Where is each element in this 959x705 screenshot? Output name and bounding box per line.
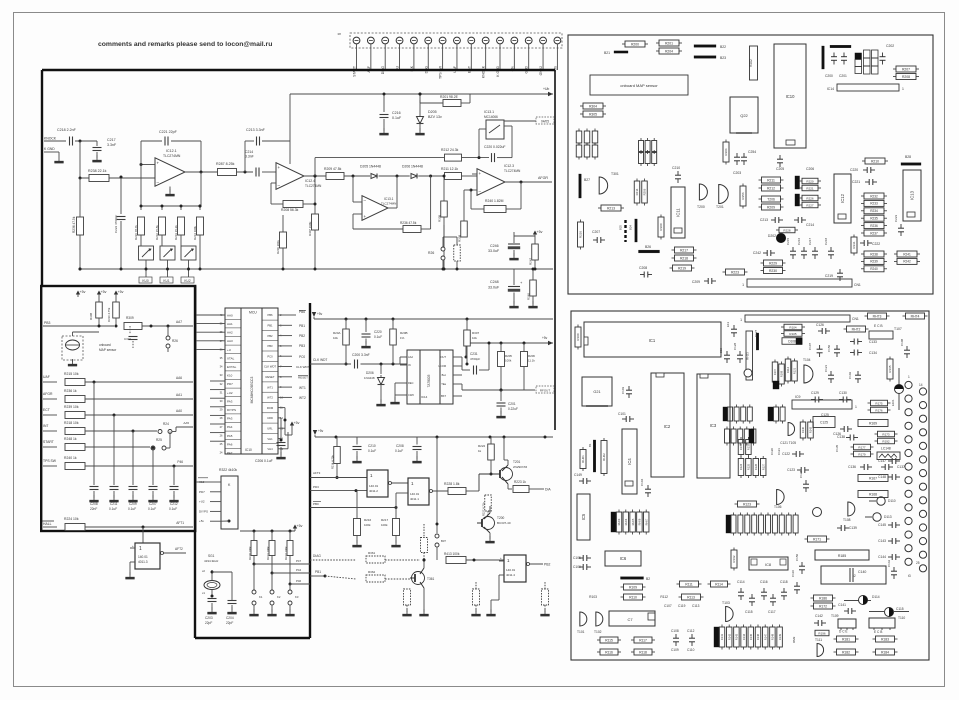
IC6 (PCB): [605, 551, 641, 566]
+5v arrow mid: [534, 232, 536, 237]
IC13 (PCB): [903, 170, 921, 221]
svg-text:CN1: CN1: [852, 317, 859, 321]
svg-text:WT1: WT1: [267, 385, 273, 389]
svg-text:R208: R208: [902, 75, 910, 79]
svg-text:URL: URL: [267, 427, 273, 431]
resistor RH23 tall (PCB): [746, 331, 753, 380]
resistor R183 (PCB): [876, 636, 895, 642]
diode D206 1N4448: [411, 174, 417, 179]
svg-text:T201: T201: [513, 460, 520, 464]
transistor T201 2N2907A: [500, 468, 513, 481]
svg-text:t3: t3: [908, 574, 911, 578]
svg-text:0.1uF: 0.1uF: [148, 507, 156, 511]
preset switch KU0: [139, 246, 154, 260]
svg-text:INT: INT: [43, 424, 48, 428]
svg-text:T200: T200: [697, 205, 705, 209]
ground C208b: [416, 456, 418, 461]
resistor R109 (PCB): [624, 584, 643, 590]
svg-text:R141: R141: [720, 633, 724, 640]
resistor R236 (PCB): [864, 223, 884, 229]
svg-text:1: 1: [902, 87, 904, 91]
wire opamp3 output up: [388, 207, 397, 209]
svg-text:RH73: RH73: [873, 314, 882, 318]
resistor RH73 (PCB): [868, 313, 887, 319]
svg-text:C208: C208: [396, 444, 404, 448]
svg-text:C203: C203: [205, 616, 213, 620]
resistor R234 100k vertical: [197, 217, 204, 235]
svg-text:R248 1k: R248 1k: [64, 437, 77, 441]
svg-text:AFT3: AFT3: [313, 471, 321, 475]
jumper K3: [289, 584, 291, 590]
resistor R212 24.3k: [445, 154, 462, 161]
transistor T301 (PCB): [599, 177, 608, 194]
resistor RH01 vertical (PCB): [580, 450, 586, 469]
svg-text:RH72: RH72: [852, 327, 861, 331]
svg-text:T111: T111: [815, 638, 822, 642]
connector CN0 dashed outline: [350, 33, 562, 48]
microcontroller box border: [194, 286, 196, 638]
dotted resistor R203 vertical: [421, 538, 428, 553]
svg-text:R124: R124: [739, 463, 743, 470]
resistor R237 (PCB): [864, 230, 884, 236]
svg-text:R216: R216: [364, 518, 372, 522]
svg-text:R24: R24: [163, 422, 169, 426]
svg-text:+5v: +5v: [294, 421, 300, 425]
hole E101: [898, 368, 900, 410]
svg-text:D113: D113: [884, 515, 892, 519]
jumper K1: [253, 564, 255, 590]
dot junction: [79, 140, 82, 143]
wires presets: [140, 234, 142, 236]
IC9b label hole: [744, 369, 752, 377]
svg-text:R113: R113: [687, 595, 695, 599]
connector pin +U: [396, 37, 403, 44]
feedback wires opamp2: [271, 182, 276, 184]
svg-text:R240 1k: R240 1k: [64, 456, 77, 460]
svg-text:R217: R217: [381, 518, 389, 522]
svg-text:C136: C136: [848, 465, 856, 469]
svg-text:4011.4: 4011.4: [506, 573, 515, 577]
svg-text:C209: C209: [692, 280, 700, 284]
resistor R208 56.3k feedback: [283, 201, 303, 208]
svg-text:C130: C130: [839, 391, 847, 395]
svg-text:C101: C101: [618, 412, 626, 416]
svg-text:R231: R231: [852, 241, 856, 249]
T109 package (PCB): [838, 619, 856, 628]
svg-text:PA3: PA3: [227, 417, 233, 421]
svg-text:RC31 100k: RC31 100k: [266, 546, 270, 560]
resistor R172b (PCB): [814, 603, 833, 609]
svg-text:4011.2: 4011.2: [369, 489, 378, 493]
resistor R223 1k: [507, 484, 509, 489]
svg-text:+: +: [364, 214, 367, 219]
svg-text:REC: REC: [408, 381, 414, 385]
svg-text:22pF: 22pF: [226, 621, 233, 625]
svg-text:C139: C139: [849, 526, 857, 530]
svg-text:C107: C107: [664, 604, 672, 608]
svg-text:C218 2.2nF: C218 2.2nF: [57, 128, 77, 132]
ground C246: [513, 253, 515, 258]
svg-text:AA2: AA2: [227, 331, 233, 335]
svg-text:RC32 100k: RC32 100k: [284, 546, 288, 560]
diode D114 (PCB): [859, 596, 868, 605]
svg-text:D110: D110: [888, 499, 896, 503]
wire opamp4 minus rail: [464, 189, 471, 191]
IC8 (PCB): [749, 557, 788, 570]
PCB panel 1 border: [568, 35, 933, 294]
svg-text:C220 0.022uF: C220 0.022uF: [484, 145, 506, 149]
D10B boxed (PCB): [782, 338, 802, 345]
svg-text:R110: R110: [629, 595, 637, 599]
dashed net label 04/05: [536, 117, 554, 124]
ground R248: [532, 301, 534, 306]
svg-text:B1: B1: [588, 443, 592, 447]
svg-text:PB3: PB3: [44, 321, 51, 325]
svg-text:R123: R123: [743, 502, 751, 506]
svg-text:D202: D202: [768, 234, 776, 238]
svg-text:RH04: RH04: [624, 518, 628, 525]
svg-text:Q22: Q22: [740, 113, 748, 118]
svg-text:+5v: +5v: [542, 336, 548, 340]
svg-text:DIAG: DIAG: [313, 554, 321, 558]
svg-text:BST: BST: [441, 394, 446, 398]
resistor R217 (PCB): [675, 247, 694, 253]
input conditioning box border: [41, 286, 195, 531]
svg-text:AA0: AA0: [176, 409, 182, 413]
svg-text:R236 1k: R236 1k: [64, 389, 77, 393]
svg-text:C143: C143: [878, 539, 886, 543]
svg-text:T103: T103: [722, 601, 730, 605]
ground K GND: [58, 156, 60, 161]
capacitor C212 0.1uF: [173, 466, 175, 485]
svg-text:R105: R105: [789, 332, 797, 336]
capacitor C211 0.1uF: [113, 415, 115, 485]
resistor R210 (PCB): [865, 158, 885, 164]
svg-text:C141: C141: [838, 603, 846, 607]
svg-text:R212 24.3k: R212 24.3k: [441, 148, 459, 152]
svg-text:+U: +U: [227, 348, 231, 352]
microcontroller IC10 body: [225, 308, 241, 454]
resistor R207 (PCB): [896, 66, 916, 72]
svg-text:+: +: [479, 171, 482, 176]
svg-text:C202: C202: [886, 44, 894, 48]
dot INT chain: [132, 430, 135, 433]
resistor R192 (PCB): [878, 438, 895, 444]
resistor R162 vertical (PCB): [731, 550, 737, 568]
resistor R206 11.1k vertical: [521, 352, 528, 367]
capacitor C217 3.3nF: [96, 141, 98, 146]
svg-text:R125: R125: [747, 463, 751, 470]
resistor R20A 10k vertical: [343, 329, 350, 345]
svg-text:R118: R118: [639, 650, 647, 654]
svg-text:R214 4.75k: R214 4.75k: [331, 455, 335, 469]
ground R366: [406, 609, 408, 614]
svg-text:0.1uF: 0.1uF: [395, 449, 403, 453]
svg-text:RH03: RH03: [617, 518, 621, 525]
svg-text:CN1: CN1: [854, 283, 861, 287]
svg-text:R116: R116: [605, 650, 613, 654]
svg-text:RESET: RESET: [266, 375, 275, 379]
connector pin ISK: [411, 37, 418, 44]
+5v arrow rail left end: [312, 312, 316, 317]
svg-text:T102: T102: [594, 630, 602, 634]
svg-text:R213: R213: [607, 206, 615, 210]
svg-text:RH01: RH01: [581, 455, 585, 463]
ground T361 emitter: [423, 588, 425, 612]
svg-text:PD7: PD7: [199, 490, 205, 494]
svg-text:C212: C212: [170, 502, 178, 506]
op-amp IC12.1 TLC274MN: [155, 158, 185, 187]
svg-text:T108: T108: [843, 518, 851, 522]
svg-text:CLK WDT: CLK WDT: [313, 358, 327, 362]
svg-text:R103: R103: [589, 595, 597, 599]
svg-text:cn: cn: [338, 32, 342, 36]
resistor R227 4.71k vertical: [485, 495, 492, 511]
resistor R310b 4.75k vertical: [113, 302, 120, 318]
TA78005 left pin wires: [399, 357, 401, 364]
resistor R201 (PCB): [659, 40, 679, 46]
svg-text:C218: C218: [824, 237, 828, 245]
svg-text:R210: R210: [871, 159, 879, 163]
resistor R217 100k vertical: [393, 519, 400, 536]
svg-text:R177: R177: [858, 445, 866, 449]
capacitor C210b 0.1uF: [356, 437, 358, 445]
resistor R117 (PCB): [634, 637, 652, 643]
svg-text:C209: C209: [129, 502, 137, 506]
resistor R232 (PCB): [864, 193, 884, 199]
svg-text:C125: C125: [821, 413, 829, 417]
svg-text:R217: R217: [680, 248, 688, 252]
resistor R179 (PCB): [854, 451, 871, 457]
resistor R196 (PCB): [815, 630, 829, 636]
resistor R236b 1k: [65, 396, 85, 403]
ground C210b: [356, 456, 358, 461]
svg-text:R114: R114: [715, 582, 723, 586]
jumper bar B21: [614, 51, 628, 53]
svg-text:C221: C221: [852, 180, 860, 184]
svg-text:onboard: onboard: [99, 343, 111, 347]
onboard MAP sensor box: [590, 75, 688, 95]
svg-text:G21: G21: [593, 390, 600, 394]
svg-text:B22: B22: [720, 45, 726, 49]
svg-text:C140: C140: [858, 570, 866, 574]
resistor R186 (PCB): [814, 595, 833, 601]
resistor R235 (PCB): [864, 215, 884, 221]
svg-text:B28: B28: [905, 155, 911, 159]
diode D113 (PCB): [873, 513, 881, 521]
svg-text:C115: C115: [745, 610, 753, 614]
svg-text:R117: R117: [639, 638, 647, 642]
svg-text:PB3: PB3: [299, 344, 305, 348]
resistor R240 1.82M feedback: [484, 206, 506, 213]
wire to C213 junction: [237, 171, 254, 173]
svg-text:WT2: WT2: [299, 396, 306, 400]
svg-text:C210: C210: [672, 166, 680, 170]
C125 (PCB): [813, 417, 835, 428]
svg-text:100k: 100k: [505, 359, 512, 363]
svg-text:R239: R239: [870, 260, 878, 264]
wire opamp1 output: [185, 171, 218, 173]
svg-text:+5v: +5v: [118, 290, 124, 294]
svg-text:R248: R248: [527, 293, 531, 300]
resistor R240 (PCB): [864, 266, 884, 272]
ground C212: [173, 495, 175, 500]
svg-text:SG1: SG1: [208, 554, 215, 558]
svg-text:P47: P47: [296, 559, 302, 563]
+5v arrow input box 3: [115, 292, 117, 297]
svg-text:IC2: IC2: [664, 424, 671, 429]
ground C216: [383, 128, 385, 133]
resistor R230 (PCB): [764, 268, 783, 274]
svg-text:R287 8.25k: R287 8.25k: [216, 162, 235, 166]
op-amp IC12.3 TLC274MN: [477, 169, 505, 196]
resistor R219 (PCB): [673, 265, 692, 271]
svg-text:R234: R234: [870, 209, 878, 213]
svg-text:R127: R127: [761, 463, 765, 470]
svg-text:PA7: PA7: [227, 451, 233, 455]
svg-text:VH1: VH1: [267, 437, 273, 441]
resistor network R322 4k10k: [221, 476, 238, 529]
svg-text:C254: C254: [748, 150, 756, 154]
svg-text:R234 100k: R234 100k: [193, 225, 197, 240]
svg-text:C114: C114: [737, 580, 745, 584]
svg-text:0.1uF: 0.1uF: [368, 449, 376, 453]
transistor T361: [412, 572, 425, 585]
svg-text:R182: R182: [842, 650, 850, 654]
svg-text:+U2: +U2: [199, 500, 205, 504]
capacitor C214 3.3nF series: [255, 168, 257, 177]
svg-text:4194.3kHz: 4194.3kHz: [204, 559, 219, 563]
svg-text:PB2: PB2: [299, 334, 305, 338]
resistor R234 (PCB): [864, 208, 884, 214]
svg-text:R413 100k: R413 100k: [444, 552, 460, 556]
svg-text:100k: 100k: [364, 523, 371, 527]
svg-text:C124: C124: [799, 470, 803, 478]
svg-text:C137: C137: [897, 465, 905, 469]
svg-text:0.22uF: 0.22uF: [508, 407, 518, 411]
capacitor C200 (PCB): [833, 53, 835, 57]
resistor R165 vertical (PCB): [887, 359, 893, 379]
hole near T108: [813, 508, 822, 517]
svg-text:MC14066: MC14066: [484, 115, 498, 119]
svg-text:PD3: PD3: [313, 485, 319, 489]
capacitor C134 (PCB): [850, 352, 854, 354]
IC5 (PCB): [577, 494, 590, 540]
svg-text:R169: R169: [869, 421, 877, 425]
capacitor C201 0.22uF: [500, 390, 502, 401]
svg-text:1: 1: [908, 375, 910, 379]
resistor R176 (PCB): [871, 407, 888, 413]
svg-text:C214: C214: [245, 150, 253, 154]
svg-text:RH02: RH02: [602, 453, 606, 461]
svg-text:R222: R222: [478, 444, 486, 448]
svg-text:R226 78.7k: R226 78.7k: [134, 225, 138, 240]
capacitor C222 4700pF vertical: [120, 177, 122, 214]
resistor R212 (PCB): [762, 185, 781, 191]
resistor R221 (PCB): [802, 185, 818, 191]
svg-text:R218 10k: R218 10k: [64, 421, 79, 425]
resistor R167 (PCB): [858, 475, 888, 482]
svg-text:+: +: [132, 544, 134, 548]
svg-text:R211 12.1k: R211 12.1k: [441, 167, 458, 171]
svg-text:R362: R362: [368, 570, 376, 574]
svg-text:C103: C103: [621, 386, 625, 394]
capacitor C126b (PCB): [840, 428, 844, 430]
svg-text:R186: R186: [819, 596, 827, 600]
svg-text:PB1: PB1: [315, 570, 321, 574]
svg-text:C109: C109: [671, 648, 679, 652]
resistor R308 vertical: [441, 201, 448, 217]
svg-text:0.1uF: 0.1uF: [374, 335, 382, 339]
svg-text:R142: R142: [727, 633, 731, 640]
zener D206 1N4448: [380, 364, 382, 374]
svg-text:R228 1.8k: R228 1.8k: [444, 482, 460, 486]
svg-text:3.3nF: 3.3nF: [245, 155, 254, 159]
jumper bar B23: [694, 56, 716, 59]
svg-text:R239 10k: R239 10k: [64, 405, 79, 409]
resistor R227 (PCB): [802, 202, 818, 208]
resistor R310 vertical: [454, 245, 461, 261]
svg-text:C102: C102: [848, 371, 852, 379]
svg-text:R111: R111: [685, 582, 693, 586]
svg-text:140.01: 140.01: [506, 568, 516, 572]
resistor R224 10k: [65, 524, 85, 531]
resistor RC32 100k vertical: [287, 541, 293, 556]
svg-text:R202: R202: [749, 59, 753, 67]
resistor row R141-R148 (PCB): [714, 627, 720, 647]
ground jumper K1: [253, 609, 255, 614]
svg-text:R232: R232: [870, 194, 878, 198]
resistor R242 (PCB): [897, 258, 917, 264]
resistor R115 (PCB): [600, 637, 618, 643]
svg-text:140.01: 140.01: [369, 484, 379, 488]
MCU wires right side: [278, 314, 292, 316]
svg-text:1%: 1%: [400, 336, 405, 340]
dot R322 +5v: [228, 520, 231, 523]
svg-text:URD: URD: [267, 416, 273, 420]
svg-text:HALL: HALL: [43, 522, 52, 526]
svg-text:33.0uF: 33.0uF: [488, 249, 500, 253]
svg-text:C116: C116: [760, 580, 768, 584]
jumper bar B20 vertical: [822, 46, 825, 69]
ground op-amp IC12.1: [169, 187, 171, 193]
resistor R239 (PCB): [864, 258, 884, 264]
+Ub vertical drop with jumper: [436, 437, 438, 533]
svg-text:PB3: PB3: [267, 344, 273, 348]
op-amp IC13.1 TLC274MN: [362, 196, 388, 221]
svg-text:R307: R307: [472, 331, 480, 335]
resistor R238 (PCB): [864, 251, 884, 257]
svg-text:IC6: IC6: [620, 556, 627, 561]
svg-text:C246: C246: [490, 244, 499, 248]
svg-text:C126: C126: [816, 323, 824, 327]
svg-text:R109: R109: [629, 585, 637, 589]
resistor R307 10k below bus: [464, 330, 471, 346]
svg-text:XTAL: XTAL: [227, 356, 235, 360]
svg-text:C142: C142: [887, 559, 891, 567]
svg-text:RH05: RH05: [631, 518, 635, 525]
svg-text:D114: D114: [872, 595, 880, 599]
wire input down: [79, 141, 81, 178]
svg-text:R224 10k: R224 10k: [64, 517, 79, 521]
svg-text:MCU: MCU: [249, 311, 257, 315]
PCB panel 2 border: [571, 311, 929, 660]
svg-text:+5v: +5v: [199, 519, 204, 523]
svg-text:R236: R236: [870, 224, 878, 228]
svg-text:RH23: RH23: [746, 352, 750, 360]
svg-text:R238 22.1k: R238 22.1k: [88, 169, 107, 173]
svg-text:ROM: ROM: [267, 406, 274, 410]
